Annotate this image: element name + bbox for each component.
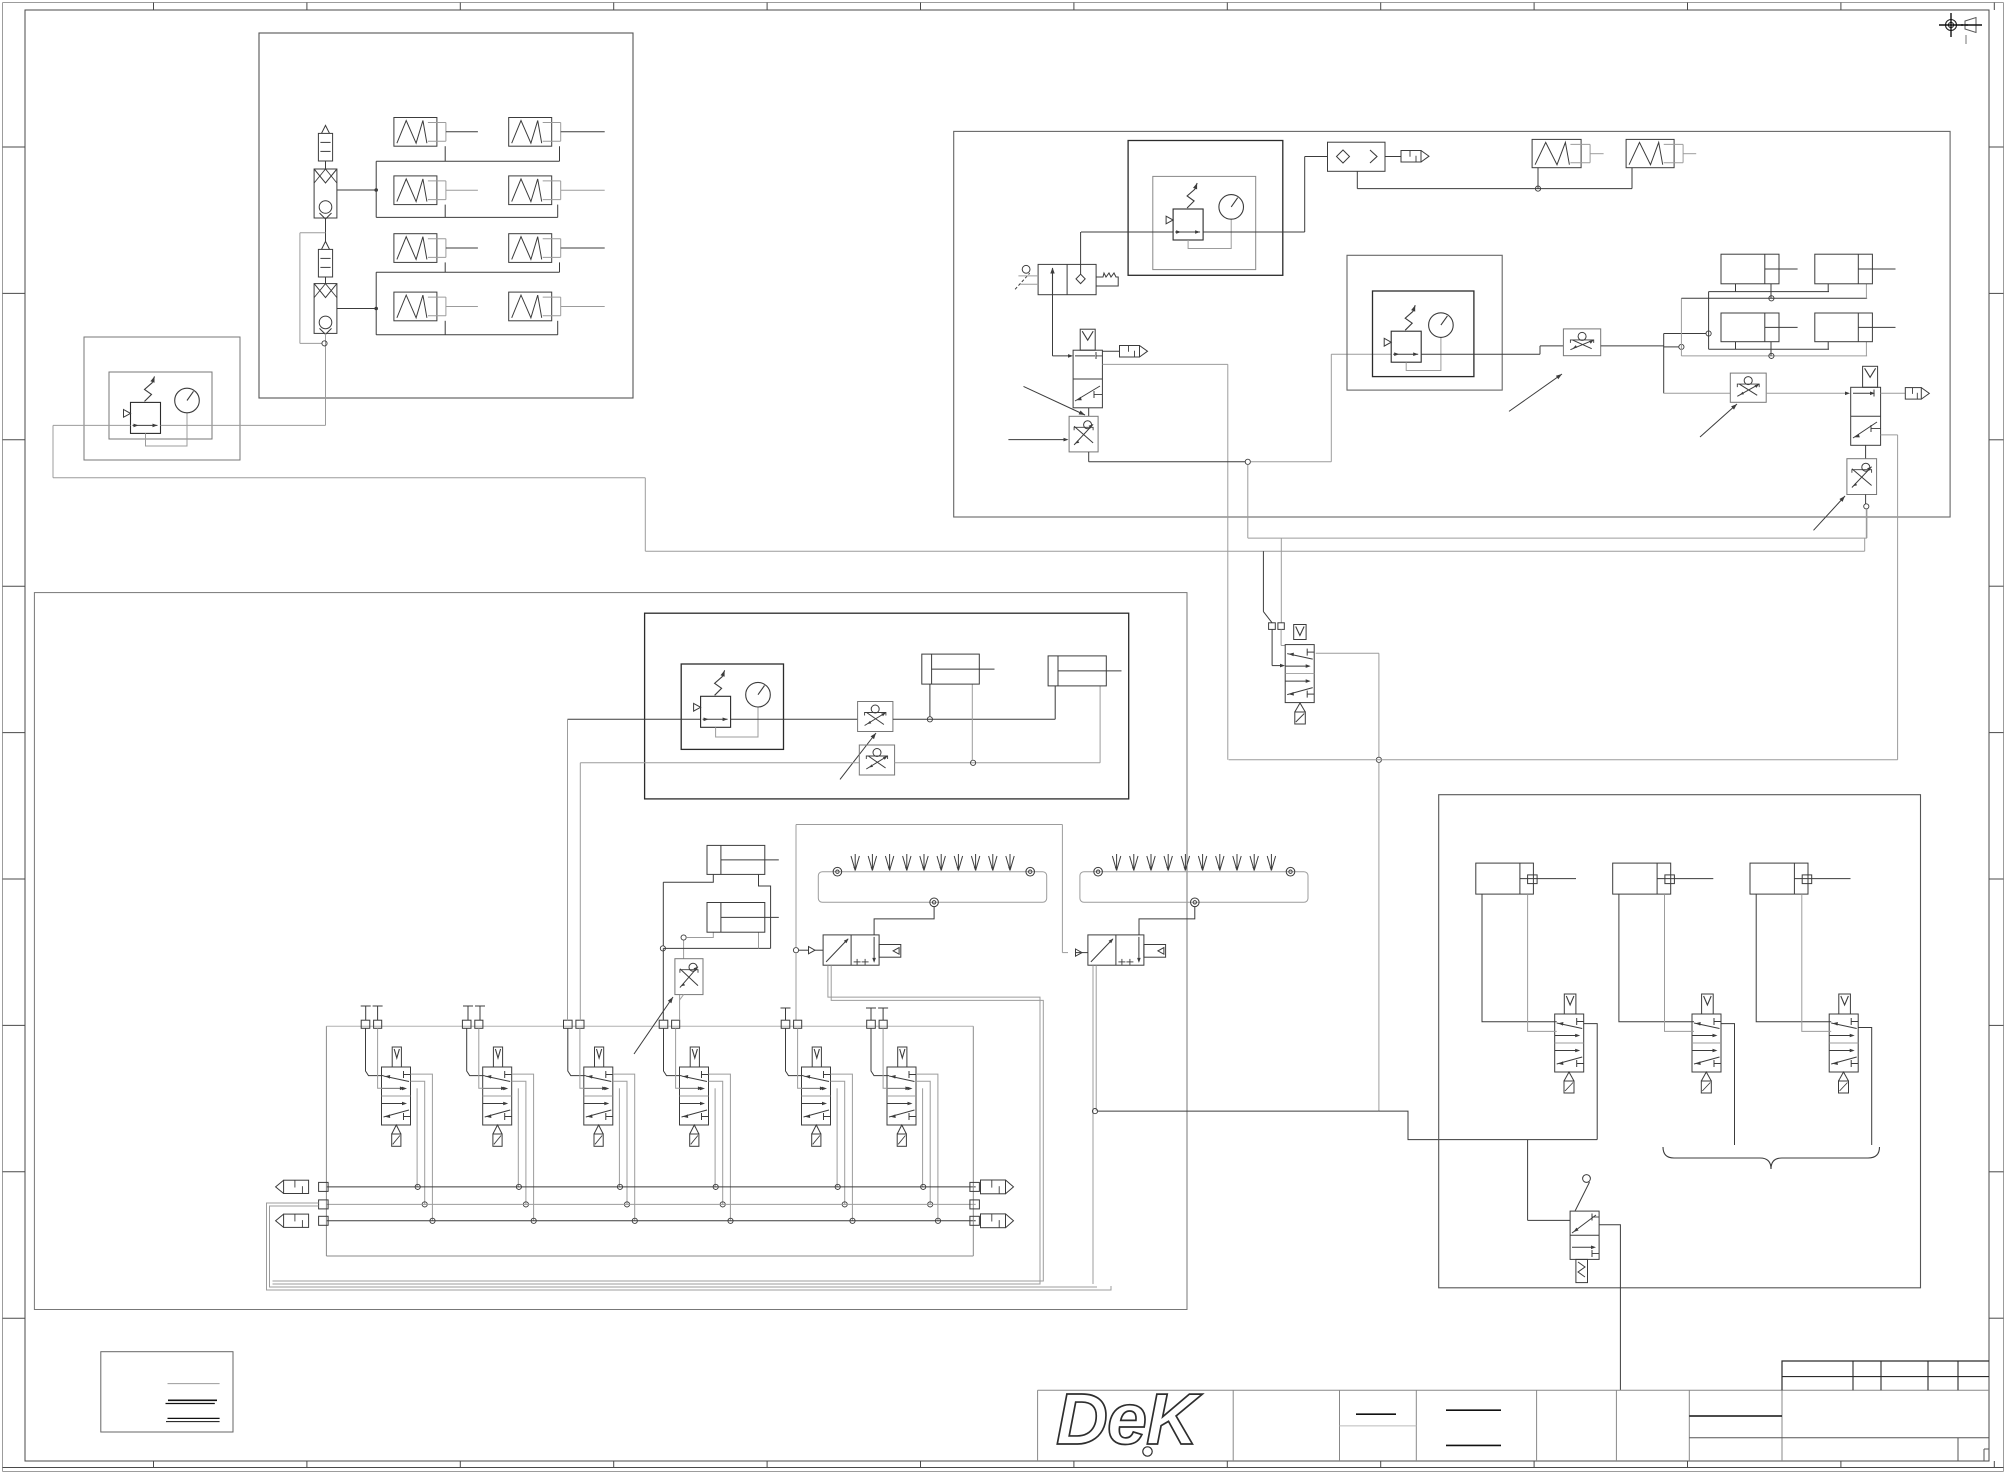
svg-text:DeK: DeK [1056, 1380, 1203, 1460]
